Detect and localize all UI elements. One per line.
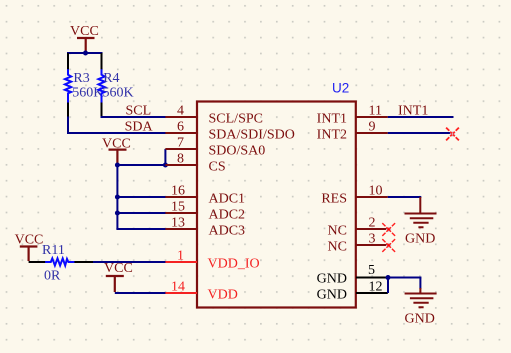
svg-text:14: 14 xyxy=(171,280,185,295)
svg-text:U2: U2 xyxy=(332,80,349,95)
svg-text:R11: R11 xyxy=(42,243,65,258)
wire ADC1 xyxy=(117,196,166,198)
junction ADC1 xyxy=(115,195,120,200)
wire GND pins junction xyxy=(388,277,421,279)
svg-text:3: 3 xyxy=(369,232,376,247)
svg-text:ADC2: ADC2 xyxy=(209,208,246,223)
svg-text:SDA: SDA xyxy=(125,120,154,135)
svg-text:9: 9 xyxy=(369,120,376,135)
wire RES to GND xyxy=(388,196,422,198)
svg-text:SDA/SDI/SDO: SDA/SDI/SDO xyxy=(209,128,295,143)
pin 16 (ADC1) xyxy=(165,196,197,198)
svg-text:1: 1 xyxy=(177,249,184,264)
pin 4 (SCL/SPC) xyxy=(165,116,197,118)
wire VCC rail down to ADC pins xyxy=(116,165,118,229)
svg-text:GND: GND xyxy=(405,231,435,246)
power flag VCC (R11) xyxy=(20,247,38,262)
pin 5 (GND) xyxy=(356,277,388,279)
wire ADC3 xyxy=(117,228,166,229)
pin 7 (SDO/SA0) xyxy=(165,148,197,150)
svg-text:4: 4 xyxy=(177,104,184,119)
svg-text:GND: GND xyxy=(317,288,347,303)
wire down to GND symbol xyxy=(419,278,421,290)
svg-text:ADC3: ADC3 xyxy=(209,224,246,239)
svg-text:560K: 560K xyxy=(72,86,103,101)
svg-text:12: 12 xyxy=(369,280,383,295)
svg-text:INT2: INT2 xyxy=(317,128,347,143)
svg-text:ADC1: ADC1 xyxy=(209,192,246,207)
wire R11 to VDD_IO pin 1 xyxy=(93,261,166,263)
svg-text:10: 10 xyxy=(369,184,383,199)
pin 14 (VDD) xyxy=(165,292,197,294)
svg-text:INT1: INT1 xyxy=(398,104,428,119)
pin 2 (NC) xyxy=(356,228,388,230)
wire SDA net (R3 bottom to pin 6) xyxy=(68,117,166,134)
junction VCC stem / CS wire xyxy=(115,163,120,168)
svg-text:GND: GND xyxy=(317,272,347,287)
junction pin5/pin12 xyxy=(386,275,391,280)
svg-text:SCL/SPC: SCL/SPC xyxy=(209,112,263,127)
wire VCC rail to R3/R4 tops xyxy=(67,52,103,54)
wire INT1 net xyxy=(388,116,454,118)
svg-text:NC: NC xyxy=(328,224,347,239)
svg-text:R4: R4 xyxy=(103,71,119,86)
no-connect X (pin 3) xyxy=(382,239,395,252)
svg-text:6: 6 xyxy=(177,120,184,135)
wire INT2 net xyxy=(388,132,451,134)
pin 3 (NC) xyxy=(356,244,388,246)
power flag VCC (VDD) xyxy=(106,276,124,292)
svg-text:7: 7 xyxy=(177,136,184,151)
svg-text:VDD: VDD xyxy=(208,288,238,303)
pin 8 (CS) xyxy=(165,164,197,166)
svg-text:R3: R3 xyxy=(73,71,89,86)
svg-text:VCC: VCC xyxy=(70,24,99,39)
svg-text:15: 15 xyxy=(171,200,185,215)
pin 15 (ADC2) xyxy=(165,212,197,214)
svg-text:16: 16 xyxy=(171,184,185,199)
svg-text:0R: 0R xyxy=(44,269,61,284)
ground GND (RES) xyxy=(405,197,437,227)
no-connect X (pin 2) xyxy=(382,223,395,236)
svg-text:560K: 560K xyxy=(103,86,134,101)
svg-text:SDO/SA0: SDO/SA0 xyxy=(209,144,266,159)
svg-text:SCL: SCL xyxy=(126,104,152,119)
resistor R11 xyxy=(29,258,94,265)
resistor R4 xyxy=(98,53,104,117)
svg-text:VCC: VCC xyxy=(15,233,44,248)
svg-text:VDD_IO: VDD_IO xyxy=(208,257,260,272)
no-connect X (INT2 wire end) xyxy=(446,128,459,141)
wire riser pin 7 to pin 8 wire xyxy=(164,149,166,166)
power flag VCC (top, R3/R4 pull-ups) xyxy=(77,38,95,53)
op IC U2 body xyxy=(197,102,356,308)
ground GND (pins 5/12) xyxy=(405,288,437,307)
svg-text:VCC: VCC xyxy=(102,136,131,151)
svg-text:8: 8 xyxy=(177,152,184,167)
svg-text:CS: CS xyxy=(209,160,226,175)
pin 12 (GND) xyxy=(356,292,388,294)
wire riser pin 12 to pin 5 wire xyxy=(387,278,389,294)
resistor R3 xyxy=(65,53,71,118)
svg-text:VCC: VCC xyxy=(104,261,133,276)
svg-text:INT1: INT1 xyxy=(317,112,347,127)
junction ADC2 xyxy=(115,211,120,216)
wire ADC2 xyxy=(117,212,166,214)
pin 9 (INT2) xyxy=(356,132,388,134)
pin 11 (INT1) xyxy=(356,116,388,118)
junction at VCC / R3 / R4 xyxy=(83,51,88,56)
svg-text:2: 2 xyxy=(369,216,376,231)
pin 10 (RES) xyxy=(356,196,388,198)
wire VCC to VDD pin 14 xyxy=(115,292,166,294)
svg-text:13: 13 xyxy=(171,216,185,231)
svg-text:RES: RES xyxy=(321,192,347,207)
pin 13 (ADC3) xyxy=(165,228,197,230)
wire SCL net (R4 bottom to pin 4) xyxy=(101,116,167,118)
svg-text:NC: NC xyxy=(328,240,347,255)
svg-text:5: 5 xyxy=(368,263,375,278)
power flag VCC (CS / SDO pull-up) xyxy=(109,150,127,164)
svg-text:GND: GND xyxy=(405,312,435,327)
junction pin7 riser / CS wire xyxy=(163,163,168,168)
pin 1 (VDD_IO) xyxy=(165,261,197,263)
pin 6 (SDA/SDI/SDO) xyxy=(165,132,197,134)
wire VCC to CS pin 8 xyxy=(117,164,166,166)
svg-text:11: 11 xyxy=(369,104,382,119)
